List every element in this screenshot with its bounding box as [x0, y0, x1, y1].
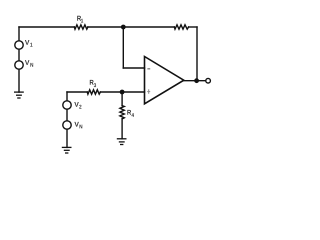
wire R4 to ground [121, 119, 123, 139]
node B (non-inverting junction dot) [120, 90, 125, 95]
wire R1 to feedback resistor [88, 26, 174, 28]
wire V2 to VN [66, 109, 68, 121]
wire V1 to VN [18, 49, 20, 61]
wire node A down [122, 27, 124, 68]
output terminal [206, 78, 211, 83]
wire plus branch corner to R3 [67, 91, 87, 93]
ground (left, below VN) [14, 92, 24, 98]
op-amp U1 [145, 57, 184, 104]
wire R2 to right corner [189, 26, 197, 28]
source VN (top) [15, 61, 23, 69]
wire R3 to non-inverting input [100, 91, 144, 93]
op-amp minus sign [147, 68, 150, 70]
label V1 [25, 40, 33, 47]
source VN (bottom) [63, 121, 71, 129]
wire to inverting input [123, 67, 144, 69]
wire VN to ground [18, 69, 20, 92]
wire V2 corner vertical [66, 92, 68, 101]
wire top-left corner to R1 [19, 26, 74, 28]
wire right vertical feedback to output [196, 27, 198, 81]
wire output [184, 80, 206, 82]
ground (below V2/VN) [62, 147, 72, 153]
source V2 [63, 101, 71, 109]
resistor R3 [87, 90, 100, 94]
wire node B down to R4 [121, 92, 123, 106]
label R4 [127, 110, 134, 117]
label R3 [90, 80, 96, 87]
label V2 [74, 102, 81, 109]
label VN (bottom) [74, 122, 82, 129]
source V1 [15, 41, 23, 49]
resistor R2 (unlabeled feedback) [174, 25, 188, 29]
label VN (top) [25, 60, 33, 67]
label R1 [77, 16, 83, 23]
resistor R1 [74, 25, 88, 29]
node A (inverting summing junction dot) [121, 25, 126, 30]
node output dot [194, 78, 199, 83]
wire VN bottom to ground [66, 129, 68, 147]
resistor R4 [120, 106, 124, 119]
op-amp plus sign [147, 89, 150, 94]
ground (below R4) [117, 139, 127, 145]
wire left vertical top [18, 27, 20, 41]
